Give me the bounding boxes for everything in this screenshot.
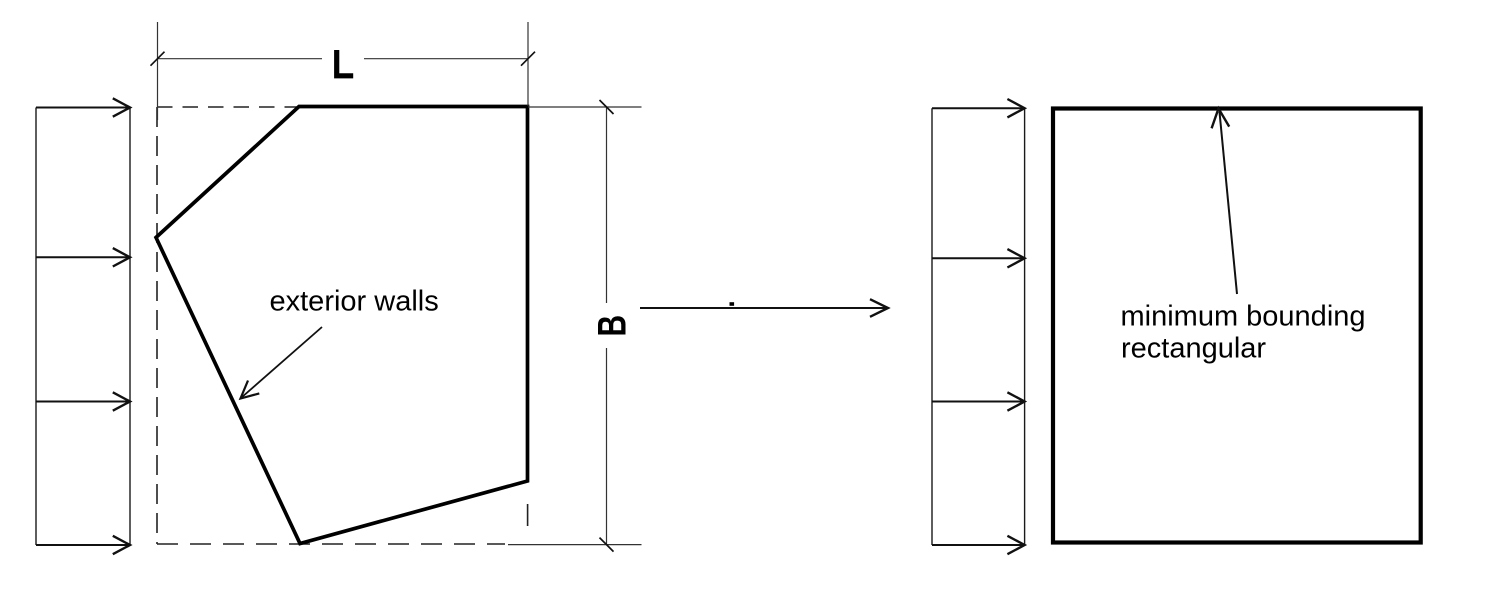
- wind load block right: right rail: [1024, 108, 1026, 545]
- dimension B: bottom extension line: [508, 544, 642, 546]
- transform arrow (left figure to right figure): [640, 299, 888, 317]
- wind arrow L1: [36, 98, 130, 116]
- svg-text:rectangular: rectangular: [1121, 333, 1266, 365]
- dimension L: dimension line right part: [364, 58, 528, 60]
- dimension B: dimension line lower part: [606, 348, 608, 545]
- leader arrow to exterior wall: [241, 327, 323, 399]
- dashed bounding box bottom edge: [157, 543, 505, 545]
- dimension L: right extension line: [527, 22, 529, 106]
- dimension B: top tick: [600, 100, 614, 114]
- dimension label L: [334, 50, 353, 78]
- wind arrow R3: [932, 392, 1025, 410]
- small dot above transform arrow: [730, 302, 735, 306]
- dimension L: right tick: [521, 52, 535, 66]
- wind arrow R4: [932, 536, 1025, 554]
- dashed bounding box right edge (partial dash): [527, 504, 529, 526]
- wind arrow L2: [36, 248, 130, 266]
- svg-text:exterior walls: exterior walls: [270, 286, 439, 318]
- dashed bounding box top edge: [157, 106, 299, 108]
- building outline polygon (exterior walls): [156, 107, 528, 544]
- dimension B: dimension line upper part: [606, 107, 608, 303]
- wind load block right: left rail: [931, 108, 933, 545]
- dimension L: left extension line: [157, 22, 159, 120]
- wind arrow L3: [36, 392, 130, 410]
- svg-text:B: B: [591, 315, 635, 337]
- dimension L: left tick: [151, 52, 165, 66]
- svg-text:minimum bounding: minimum bounding: [1121, 301, 1366, 333]
- wind load block left: right rail: [129, 108, 131, 546]
- dimension B: top extension line: [528, 106, 642, 108]
- dashed bounding box left edge: [156, 107, 158, 544]
- dimension L: dimension line left part: [158, 58, 323, 60]
- wind arrow R2: [932, 249, 1025, 267]
- wind arrow L4: [36, 536, 130, 554]
- wind load block left: left rail: [35, 108, 37, 546]
- minimum bounding rectangle: [1053, 109, 1421, 543]
- wind arrow R1: [932, 99, 1025, 117]
- leader arrow to rectangle top edge: [1212, 109, 1237, 295]
- dimension B: bottom tick: [600, 538, 614, 552]
